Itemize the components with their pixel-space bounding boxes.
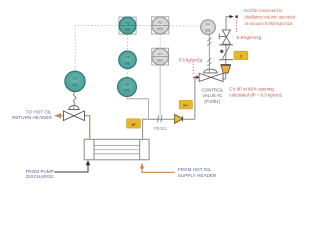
instrument FC001 bubble	[152, 17, 169, 34]
tag flag 2 (yellow box on riser)	[179, 100, 192, 109]
svg-text:TIC: TIC	[125, 21, 131, 25]
instrument FT001 bubble	[152, 48, 169, 65]
svg-text:FT: FT	[158, 52, 162, 56]
arrow to hot oil return header (left)	[54, 113, 61, 118]
svg-text:VALVE #1: VALVE #1	[202, 93, 222, 98]
annotation arrow at valve inlet	[193, 76, 196, 78]
signal dashed FC001 to FT001	[159, 34, 161, 48]
signal dashed TIC002 to TT002	[127, 34, 129, 51]
svg-text:CONTROL: CONTROL	[201, 87, 223, 92]
instrument FC001 square	[152, 17, 169, 34]
svg-text:FROM HOT OIL: FROM HOT OIL	[178, 167, 212, 172]
svg-text:1F: 1F	[131, 123, 136, 127]
svg-text:-0.8 kg/cm2g: -0.8 kg/cm2g	[235, 35, 262, 40]
annotation CV dP note	[229, 86, 282, 97]
heat exchanger E-001 shell	[84, 139, 149, 160]
wire exchanger outlet riser to FE line	[143, 119, 195, 139]
annotation leader 5.6 kg/cm2g	[192, 62, 194, 75]
wire TE002 process connection	[127, 96, 148, 119]
svg-text:Nozzle connected to: Nozzle connected to	[244, 8, 283, 13]
instrument FY001 bubble	[201, 20, 216, 35]
svg-text:P+: P+	[183, 104, 189, 108]
arrow hot oil supply up	[140, 163, 144, 169]
svg-text:001: 001	[158, 27, 164, 31]
control valve FV001 body	[199, 73, 223, 81]
signal dashed TT002 to TE002	[127, 69, 129, 77]
instrument TIC002 square	[119, 17, 136, 34]
instrument TT002 bubble	[119, 51, 137, 69]
wire FT001 to orifice tap	[159, 65, 161, 116]
label to hot oil return header	[12, 110, 52, 120]
heat exchanger tube lines	[94, 146, 140, 154]
svg-text:at vacuum 0.053 kg/cm2a: at vacuum 0.053 kg/cm2a	[244, 21, 293, 26]
svg-text:001: 001	[205, 29, 211, 33]
tag flag 3 (yellow box near spectacle blind)	[234, 51, 248, 59]
wire FV001 outlet elbow to expander	[223, 73, 226, 79]
svg-text:TT: TT	[125, 56, 129, 60]
signal dashed TV002 to TIC002	[75, 26, 119, 71]
tag flag 1 (yellow box on line corner)	[127, 119, 141, 128]
svg-text:FC: FC	[158, 21, 163, 25]
spectacle blind bar	[223, 46, 230, 59]
orifice plate FE001	[158, 115, 162, 122]
svg-text:CV dP at 86% opening,: CV dP at 86% opening,	[229, 86, 275, 91]
annotation nozzle note	[244, 8, 295, 26]
specialty item (orange triangle) on FE line	[175, 114, 183, 123]
wire hot oil return valve inlet from exchanger	[84, 116, 89, 140]
gate valve on column line	[222, 30, 230, 44]
wire riser up to control valve inlet	[195, 77, 199, 119]
label control valve	[201, 87, 223, 104]
actuator diaphragm TV002	[69, 105, 80, 109]
instrument FT001 square	[152, 48, 169, 65]
wire hot oil supply (orange)	[142, 168, 175, 173]
svg-text:002: 002	[125, 62, 131, 66]
svg-text:001: 001	[158, 58, 164, 62]
svg-text:FE001: FE001	[154, 126, 167, 131]
label from hot oil supply header	[178, 167, 217, 178]
expander after FV001	[220, 64, 231, 66]
gate valve handle	[219, 34, 226, 40]
signal squiggle TV002 bubble to actuator	[73, 92, 76, 110]
svg-text:SUPPLY HEADER: SUPPLY HEADER	[178, 173, 217, 178]
arrow to column nozzle (dark)	[230, 15, 234, 18]
svg-text:5.6 kg/cm2g: 5.6 kg/cm2g	[179, 57, 203, 62]
node nozzle marker (red square)	[235, 15, 238, 18]
signal squiggle FY001 to FV001	[207, 35, 211, 73]
svg-text:(FV001): (FV001)	[204, 99, 220, 104]
instrument TV002 bubble	[65, 71, 85, 91]
spectacle blind flanges	[219, 45, 233, 60]
svg-text:calculated dP = 0.3 kg/cm2: calculated dP = 0.3 kg/cm2	[229, 92, 282, 97]
wire column line segments	[226, 17, 230, 65]
svg-text:002: 002	[72, 83, 78, 87]
svg-text:002: 002	[125, 27, 131, 31]
actuator diaphragm FV001	[204, 69, 218, 73]
svg-text:2: 2	[240, 55, 242, 59]
svg-text:002: 002	[124, 89, 130, 93]
wire process inlet from pump (dark)	[54, 164, 88, 172]
spectacle blind dot	[220, 50, 223, 53]
control valve TV002 body	[63, 111, 84, 121]
signal dashed TIC002 to FC001	[136, 25, 151, 27]
instrument TE002 bubble	[118, 78, 137, 97]
svg-text:distillation column operated: distillation column operated	[244, 15, 295, 20]
wire hot oil return (orange) valve outlet to header	[61, 115, 64, 117]
arrow process inlet up	[86, 160, 90, 165]
label from pump discharge	[26, 169, 54, 179]
instrument TIC002 bubble	[119, 17, 136, 34]
svg-text:RETURN HEADER: RETURN HEADER	[12, 115, 52, 120]
annotation leader -0.8 kg/cm2g	[236, 20, 238, 33]
svg-text:DISCHARGE: DISCHARGE	[26, 174, 53, 179]
signal dashed FC001 to FY001	[169, 25, 201, 27]
